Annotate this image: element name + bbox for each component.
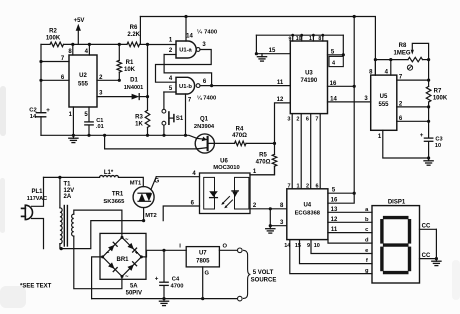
wire U3-U4 bus: [287, 114, 320, 190]
wire U4 pin5: [328, 188, 356, 195]
terminal bottom: [238, 296, 243, 301]
label 1/4 7400 b: [197, 95, 216, 102]
svg-text:Q1: Q1: [200, 117, 209, 123]
svg-text:R2: R2: [49, 28, 57, 34]
regulator U7 7805: [186, 247, 219, 267]
inductor L1: [100, 170, 119, 177]
svg-text:R4: R4: [236, 127, 244, 133]
wire right column: [427, 58, 430, 86]
wire L1 to MT1: [119, 177, 144, 186]
svg-text:R6: R6: [130, 25, 138, 31]
box U3 pin4: [329, 56, 343, 66]
nand U1-b: [176, 77, 200, 94]
svg-text:U1-a: U1-a: [179, 48, 192, 54]
svg-text:470Ω: 470Ω: [232, 133, 247, 139]
svg-text:PL1: PL1: [31, 189, 43, 195]
wire U6 pin6: [163, 200, 199, 220]
transformer T1 core: [64, 206, 67, 247]
note see text: [20, 284, 52, 290]
ground U2: [69, 135, 78, 142]
wire U1-a pin2: [164, 48, 176, 54]
svg-text:−: −: [106, 250, 110, 256]
ground U5: [424, 158, 433, 165]
svg-text:9: 9: [307, 243, 310, 249]
wire rail to U4 pins5-16: [353, 17, 355, 194]
svg-text:TR1: TR1: [112, 191, 124, 197]
wire U1-a out3 to U1-b pin4: [156, 42, 212, 82]
wire U1-b out6 to U3 pin11: [200, 79, 290, 86]
svg-text:R1: R1: [126, 60, 134, 66]
wire U2 pin4: [85, 43, 91, 55]
svg-text:5 VOLT: 5 VOLT: [253, 270, 274, 276]
svg-text:*SEE TEXT: *SEE TEXT: [20, 284, 52, 290]
svg-text:+: +: [420, 132, 424, 139]
svg-text:¹⁄₄ 7400: ¹⁄₄ 7400: [197, 29, 217, 36]
display digit: [382, 218, 410, 273]
svg-text:R3: R3: [135, 115, 143, 121]
svg-text:555: 555: [378, 102, 389, 108]
decoder U4 ECG8368: [287, 189, 328, 240]
svg-text:O: O: [223, 244, 228, 250]
wire TR1 gate: [151, 177, 160, 190]
svg-text:R7: R7: [434, 89, 442, 95]
svg-text:555: 555: [78, 82, 89, 88]
svg-text:U2: U2: [79, 73, 87, 79]
light arrows U6: [221, 197, 232, 209]
svg-text:11: 11: [331, 227, 338, 233]
wire U1-b pin5: [164, 86, 176, 92]
svg-text:10K: 10K: [124, 67, 136, 73]
resistor R5: [250, 143, 277, 174]
optocoupler U6 MOC3010: [200, 159, 251, 214]
wire ground rail: [41, 134, 197, 139]
wire MT2 rail: [60, 221, 144, 251]
bridge BR1: [100, 233, 146, 296]
svg-text:SOURCE: SOURCE: [251, 278, 277, 284]
svg-text:R8: R8: [399, 43, 407, 49]
svg-text:2: 2: [296, 116, 299, 122]
resistor R6: [127, 25, 141, 47]
svg-text:b: b: [365, 217, 369, 223]
wire U3 pin16: [328, 81, 356, 88]
svg-text:C3: C3: [435, 136, 442, 142]
wire TR1 MT2: [142, 208, 157, 223]
wire U4 pin16: [328, 193, 354, 204]
wire Q1 emitter loop: [103, 134, 197, 149]
svg-text:14: 14: [186, 33, 193, 39]
wire U6pin2 to U4 pin8: [250, 203, 287, 211]
wire U4 pin13 seg a: [328, 207, 372, 213]
nand U1-a: [176, 41, 200, 58]
wire Q1 base: [208, 142, 235, 144]
ground DISP1: [432, 229, 441, 265]
svg-text:117VAC: 117VAC: [27, 196, 47, 202]
svg-text:2.2K: 2.2K: [127, 32, 140, 38]
capacitor C3: [420, 132, 443, 158]
svg-text:U4: U4: [303, 203, 311, 209]
wire U3 pin15 ground: [255, 35, 291, 61]
svg-text:50PIV: 50PIV: [126, 291, 142, 297]
svg-text:7: 7: [315, 116, 318, 122]
svg-text:U5: U5: [380, 94, 388, 100]
svg-text:T1: T1: [64, 181, 72, 187]
wire U2 pin2: [97, 75, 121, 82]
wire U2 pin3: [97, 91, 132, 97]
svg-text:2A: 2A: [64, 194, 72, 200]
wire U2 pin6: [39, 75, 69, 82]
wire U5 pin8: [369, 60, 375, 76]
svg-text:14: 14: [330, 96, 337, 102]
counter U3 74190: [290, 41, 327, 114]
svg-text:U7: U7: [199, 251, 207, 257]
wire BR1 minus: [92, 257, 103, 299]
wire U6 pin1: [250, 166, 275, 175]
svg-text:+: +: [46, 107, 50, 114]
svg-text:10: 10: [296, 36, 302, 42]
svg-text:7805: 7805: [196, 259, 210, 265]
wire BR1 plus: [141, 244, 186, 257]
op-timer U2 555: [69, 55, 97, 107]
capacitor C2: [29, 107, 50, 120]
svg-text:C4: C4: [172, 276, 180, 282]
svg-text:U6: U6: [220, 159, 228, 165]
resistor R3: [135, 110, 150, 135]
wire U4 pin3 ground: [266, 209, 287, 233]
svg-text:3: 3: [287, 116, 290, 122]
wire U7 out: [219, 244, 242, 253]
svg-text:CC: CC: [422, 224, 431, 230]
svg-text:ECG8368: ECG8368: [295, 211, 321, 217]
svg-text:DISP1: DISP1: [388, 199, 406, 205]
svg-text:15: 15: [295, 243, 301, 249]
svg-text:MOC3010: MOC3010: [213, 165, 239, 171]
svg-text:CC: CC: [422, 253, 431, 259]
svg-text:100K: 100K: [433, 96, 448, 102]
wire U4 pin14 seg g: [284, 240, 372, 275]
svg-text:12: 12: [277, 97, 284, 103]
wire U6 pin4 from gate: [156, 171, 199, 177]
svg-text:U3: U3: [305, 71, 313, 77]
power +5V: [74, 18, 85, 45]
photo-triac U6: [232, 191, 238, 197]
wire U2 pin1: [69, 107, 74, 135]
svg-text:+: +: [135, 250, 139, 256]
wire AC rail to L1: [44, 176, 100, 178]
svg-text:100K: 100K: [46, 35, 61, 41]
svg-text:74190: 74190: [301, 78, 318, 84]
svg-text:1: 1: [309, 36, 312, 42]
wire U5 pin4: [385, 58, 393, 75]
wire U1-a pin14: [184, 15, 193, 41]
wire bottom rail: [92, 297, 238, 300]
svg-text:13: 13: [331, 207, 338, 213]
svg-text:12: 12: [331, 217, 338, 223]
wire U2 pin8: [68, 43, 74, 55]
svg-text:.01: .01: [96, 124, 104, 130]
svg-text:470Ω: 470Ω: [256, 159, 271, 165]
wire U4 pin15 seg f: [295, 240, 372, 265]
timer U5 555: [371, 75, 397, 130]
resistor R2: [46, 28, 64, 46]
svg-text:SK3665: SK3665: [103, 199, 125, 205]
svg-text:16: 16: [330, 81, 337, 87]
wire PL1 top: [32, 177, 44, 206]
wire U5 supply: [375, 59, 408, 61]
triac TR1 SK3665: [103, 187, 154, 208]
svg-text:9: 9: [289, 37, 292, 43]
transistor Q1 2N3904: [194, 117, 215, 154]
resistor R1: [117, 43, 136, 81]
svg-text:~: ~: [125, 274, 129, 280]
wire PL1 bottom: [32, 219, 44, 249]
label 1/4 7400 a: [197, 29, 217, 36]
svg-text:11: 11: [277, 80, 284, 86]
svg-text:MT2: MT2: [145, 213, 157, 219]
wire top supply rail: [140, 15, 377, 75]
wire U1-b pin7: [186, 94, 192, 135]
svg-text:C2: C2: [29, 108, 36, 114]
svg-text:f: f: [366, 258, 368, 264]
wire DISP1 CC bottom: [420, 253, 439, 260]
svg-text:14: 14: [30, 114, 37, 120]
svg-text:2N3904: 2N3904: [194, 124, 215, 130]
ground C4: [159, 299, 168, 306]
svg-text:D1: D1: [130, 78, 138, 84]
wire U1-b out6 to U1-a pin2: [164, 55, 213, 88]
wire U4 pin11 seg c: [328, 227, 372, 233]
resistor R4: [232, 127, 274, 146]
wire U3 top bracket: [256, 34, 343, 43]
wire U5 pin6: [397, 116, 430, 123]
resistor R7: [426, 86, 448, 137]
svg-text:G: G: [154, 178, 159, 184]
svg-text:1N4001: 1N4001: [124, 85, 144, 91]
svg-text:BR1: BR1: [116, 257, 129, 263]
plug PL1 117VAC: [22, 189, 48, 220]
svg-text:12V: 12V: [64, 188, 75, 194]
wire R4 junction to U3 pin12: [273, 97, 290, 145]
wire U5 pin1: [378, 130, 430, 159]
wire U4 pin10 seg d: [314, 238, 372, 249]
svg-text:15: 15: [269, 48, 276, 54]
wire U5 pin7: [397, 75, 430, 82]
svg-text:16: 16: [331, 198, 338, 204]
wire left column: [40, 44, 42, 135]
svg-text:10: 10: [435, 143, 441, 149]
wire U5 pin2: [397, 101, 430, 108]
svg-text:R5: R5: [259, 153, 267, 159]
svg-text:U1-b: U1-b: [179, 84, 192, 90]
svg-text:1K: 1K: [135, 122, 143, 128]
wire U2 pin7: [39, 56, 69, 63]
wire node D1-R3: [146, 43, 149, 110]
svg-text:MT1: MT1: [130, 180, 142, 186]
capacitor C4: [155, 250, 184, 298]
wire U7 gnd: [203, 267, 210, 299]
svg-text:G: G: [205, 270, 210, 276]
svg-text:5A: 5A: [130, 283, 138, 289]
display DISP1: [372, 199, 420, 283]
svg-text:g: g: [365, 268, 369, 274]
wire U4 pin9 seg e: [307, 240, 372, 254]
wire U1-a pin1: [148, 37, 177, 44]
svg-text:¼ 7400: ¼ 7400: [197, 95, 216, 102]
svg-text:S1: S1: [176, 116, 184, 122]
wire U4 pin12 seg b: [328, 217, 372, 223]
wire U3 pin14 to U5 pin3: [328, 96, 371, 103]
led U6: [209, 191, 218, 197]
capacitor C1: [84, 107, 103, 135]
svg-text:10: 10: [314, 243, 320, 249]
svg-text:14: 14: [284, 243, 291, 249]
wire DISP1 CC top: [420, 224, 437, 230]
brace 5 volt source: [244, 250, 277, 298]
switch S1: [162, 92, 184, 135]
transformer T1 secondary: [72, 210, 122, 289]
svg-text:d: d: [365, 238, 369, 244]
svg-text:1MEG: 1MEG: [393, 50, 410, 56]
svg-text:6: 6: [306, 116, 309, 122]
svg-text:+: +: [155, 275, 159, 282]
svg-text:~: ~: [125, 237, 129, 243]
wire U3 pin5: [328, 35, 345, 56]
svg-text:4700: 4700: [171, 283, 184, 289]
wire +5V rail: [41, 43, 148, 45]
wire U6 pin2 label: [253, 203, 257, 209]
potentiometer R8: [393, 43, 428, 70]
svg-text:+5V: +5V: [74, 18, 85, 24]
diode D1: [124, 78, 148, 100]
transformer T1 primary: [58, 176, 74, 249]
svg-text:8: 8: [318, 36, 321, 42]
svg-text:L1*: L1*: [104, 170, 114, 176]
